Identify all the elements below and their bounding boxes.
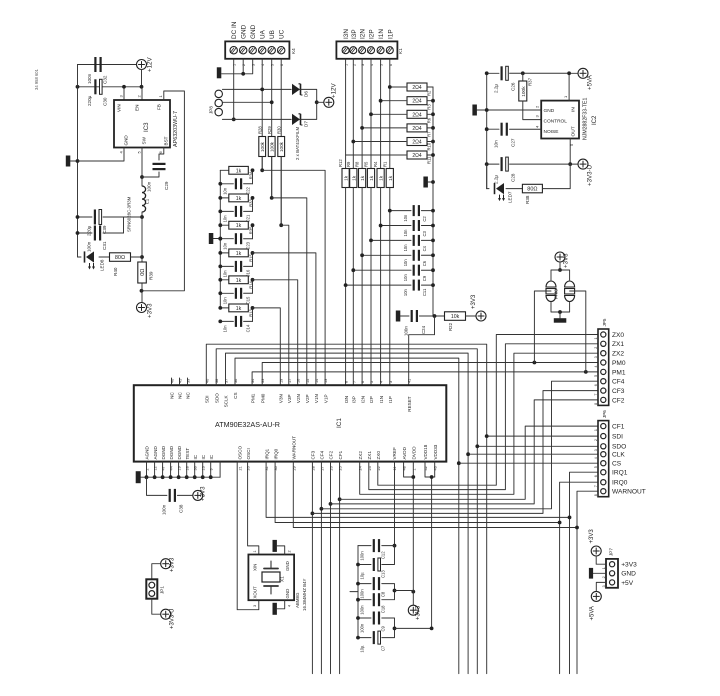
wire EN stub [141, 87, 143, 100]
svg-text:80Ω: 80Ω [527, 187, 537, 193]
svg-text:I2P: I2P [369, 29, 376, 39]
svg-text:X1: X1 [280, 576, 285, 582]
svg-text:AGND: AGND [145, 446, 150, 460]
IC1 ATM90E32AS-AU-R body [134, 385, 447, 461]
resistor R11 2Ω4 [346, 154, 406, 156]
capacitor C11 10n [346, 284, 411, 286]
svg-text:C29: C29 [164, 181, 169, 190]
svg-text:C14: C14 [246, 324, 251, 332]
wire FB feedback loop [142, 91, 185, 291]
capacitor C2 10n [390, 210, 411, 212]
LED8 [78, 256, 82, 258]
svg-text:XIN: XIN [253, 564, 258, 571]
wire IRQ1 net [266, 462, 569, 518]
svg-text:NOISE: NOISE [544, 129, 559, 135]
svg-text:CF1: CF1 [612, 424, 625, 431]
ground GND left rail [77, 65, 79, 258]
svg-text:2Ω4: 2Ω4 [412, 140, 422, 146]
svg-text:UC: UC [279, 29, 286, 39]
svg-text:EN: EN [135, 105, 140, 111]
svg-text:ATM90E32AS-AU-R: ATM90E32AS-AU-R [215, 420, 280, 429]
cap bank bracket C9 C7 [382, 618, 395, 638]
K1 screw pin 6 I1P [386, 47, 393, 54]
svg-text:+3V3-U: +3V3-U [587, 165, 594, 186]
svg-text:1: 1 [602, 567, 606, 569]
svg-text:I3N: I3N [344, 396, 349, 403]
svg-text:I2N: I2N [360, 396, 365, 403]
svg-text:+12V: +12V [147, 57, 154, 72]
svg-text:C27: C27 [511, 138, 516, 147]
svg-text:V3N: V3N [279, 394, 284, 403]
svg-text:ZX1: ZX1 [612, 341, 624, 348]
svg-text:CF3: CF3 [612, 388, 625, 395]
wire CF3 net [311, 462, 313, 674]
svg-text:SDO: SDO [214, 393, 219, 403]
capacitor C32 [94, 57, 96, 72]
svg-text:I1N: I1N [378, 29, 385, 39]
svg-text:C32: C32 [103, 75, 108, 84]
resistor R37 100k [521, 71, 525, 75]
svg-text:VIN: VIN [117, 104, 122, 112]
svg-text:1k: 1k [236, 223, 242, 229]
svg-text:2: 2 [288, 550, 292, 552]
svg-text:100k: 100k [270, 141, 275, 152]
supply +3V3 JP1 [152, 564, 161, 580]
svg-text:WARNOUT: WARNOUT [292, 436, 297, 460]
svg-text:100k: 100k [521, 86, 527, 97]
svg-text:C23: C23 [246, 241, 251, 249]
capacitor C15 10n [220, 292, 233, 294]
ground C24 [396, 311, 401, 322]
svg-text:DGND: DGND [161, 445, 166, 459]
svg-text:C2: C2 [422, 216, 427, 222]
svg-text:JP5: JP5 [602, 318, 607, 326]
ladder left rail [219, 170, 221, 308]
svg-text:10µ: 10µ [360, 645, 365, 653]
svg-text:3: 3 [253, 605, 257, 607]
JP5 pin 6 CF4 [601, 379, 606, 384]
svg-text:R30: R30 [277, 126, 282, 134]
svg-text:16: 16 [297, 379, 301, 383]
svg-text:C7: C7 [381, 645, 386, 651]
supply +3V3 IC1 [193, 490, 203, 500]
ground IC2 GND pin [477, 109, 541, 111]
supply +5VA JP7 [591, 591, 601, 601]
svg-text:CLK: CLK [612, 452, 625, 459]
wire SCLK net [226, 353, 469, 673]
svg-text:1: 1 [594, 338, 598, 340]
crystal top gnd [277, 546, 285, 555]
IC1 ground rail [141, 476, 221, 478]
connector K1 body [336, 41, 397, 58]
wire ladder row 4 to IC1 [251, 251, 255, 255]
resistor R6 2Ω4 [371, 113, 406, 115]
svg-text:21: 21 [239, 466, 243, 470]
svg-text:6: 6 [594, 384, 598, 386]
ground K4 [217, 67, 222, 78]
svg-text:1k: 1k [360, 175, 366, 181]
resistor R35 1k [220, 224, 228, 226]
svg-text:R11: R11 [427, 156, 432, 164]
wire JP8 pad1 to D6 [222, 88, 291, 90]
svg-text:R12: R12 [338, 159, 343, 167]
supply +3V3 JP7 [591, 546, 601, 556]
svg-text:C31: C31 [102, 241, 107, 250]
svg-text:1k: 1k [388, 175, 394, 181]
wire EN rail [78, 86, 143, 88]
svg-text:10n: 10n [223, 215, 228, 223]
svg-text:C4: C4 [422, 245, 427, 251]
svg-text:13: 13 [324, 379, 328, 383]
svg-text:K1: K1 [398, 48, 403, 54]
PM8 element [551, 270, 560, 280]
svg-text:R6: R6 [427, 117, 432, 123]
capacitor C31 [78, 232, 93, 234]
svg-text:100n: 100n [87, 241, 92, 252]
wire ladder row 2 to IC1 [270, 196, 274, 200]
capacitor C29 [159, 148, 164, 161]
svg-text:ZX0: ZX0 [612, 332, 624, 339]
svg-text:SW: SW [142, 136, 147, 144]
svg-text:CS: CS [612, 461, 622, 468]
svg-text:CF4: CF4 [612, 379, 625, 386]
connector JP5 body [598, 329, 609, 405]
capacitor C4 10n [371, 239, 411, 241]
svg-text:+3V3-U: +3V3-U [170, 608, 176, 629]
svg-text:R1: R1 [382, 161, 387, 167]
svg-text:C30: C30 [103, 97, 108, 106]
svg-text:AGND: AGND [153, 446, 158, 460]
connector K4 body [225, 41, 289, 58]
wire RESET to IC1 pin 41 [409, 316, 435, 385]
capacitor C26 2u2 [487, 72, 499, 74]
svg-text:100n: 100n [162, 504, 167, 515]
svg-text:2: 2 [594, 347, 598, 349]
svg-text:220µ: 220µ [87, 95, 92, 106]
svg-text:SCLK: SCLK [224, 394, 229, 407]
svg-text:I3P: I3P [351, 29, 358, 39]
wire VREF drop [393, 462, 396, 546]
svg-text:I3P: I3P [352, 396, 357, 403]
svg-text:R8: R8 [355, 161, 360, 167]
JP5 pin 4 PM0 [601, 360, 606, 365]
IC2 left rail [486, 73, 488, 188]
K4 screw pin 5 UB [268, 47, 275, 54]
svg-text:JP6: JP6 [602, 410, 607, 418]
svg-text:C24: C24 [421, 325, 426, 334]
svg-text:ZX2: ZX2 [358, 451, 363, 460]
resistor R29 100k [268, 137, 275, 157]
svg-text:4: 4 [288, 605, 292, 607]
svg-text:4: 4 [594, 366, 598, 368]
svg-text:NC: NC [186, 391, 191, 398]
svg-text:100n: 100n [360, 589, 365, 599]
svg-text:100n: 100n [87, 73, 92, 84]
svg-text:4: 4 [380, 381, 384, 383]
K4 screw pin 2 GND [240, 47, 247, 54]
diode D7 [292, 114, 300, 125]
svg-text:0Ω: 0Ω [140, 269, 146, 276]
svg-text:IRQ0: IRQ0 [612, 480, 628, 487]
svg-text:10k: 10k [451, 314, 460, 320]
wire PM8 right leg [570, 291, 586, 372]
svg-text:1: 1 [594, 429, 598, 431]
svg-text:ZX1: ZX1 [367, 451, 372, 460]
svg-text:I1P: I1P [387, 29, 394, 39]
capacitor C9 10n [353, 269, 411, 271]
svg-text:RESET: RESET [407, 396, 412, 412]
svg-text:V2P: V2P [305, 394, 310, 403]
svg-text:10n: 10n [403, 244, 408, 252]
cap bank riser join [430, 627, 434, 631]
svg-text:R40: R40 [113, 267, 118, 276]
wire JP1 bottom [152, 599, 161, 615]
svg-text:100n: 100n [360, 605, 365, 615]
wire ZX1 net [369, 344, 598, 490]
svg-text:100k: 100k [279, 141, 284, 152]
svg-text:FB: FB [157, 104, 162, 110]
capacitor C24 [411, 310, 413, 322]
svg-text:DC IN: DC IN [231, 21, 238, 39]
svg-text:VDD33: VDD33 [433, 444, 438, 459]
wire IC2 OUT [569, 139, 571, 165]
JP6 pin 6 IRQ1 [601, 470, 606, 475]
wire PM0 net [262, 363, 598, 386]
wire ladder row 5 to IC1 [251, 278, 255, 282]
svg-text:SRN6028C-3R3M: SRN6028C-3R3M [127, 196, 132, 232]
capacitor C14 10n [220, 320, 233, 322]
wire ladder row 6 to IC1 [251, 306, 255, 310]
svg-text:OUT: OUT [571, 126, 577, 136]
svg-text:C9: C9 [381, 625, 386, 631]
svg-text:10n: 10n [403, 214, 408, 222]
wire WARNOUT net [293, 462, 577, 528]
ground ladder rail [213, 238, 220, 240]
connector JP6 body [598, 421, 609, 497]
svg-text:2Ω4: 2Ω4 [412, 112, 422, 118]
svg-text:10n: 10n [223, 242, 228, 250]
svg-text:I2N: I2N [360, 29, 367, 39]
svg-text:4: 4 [594, 457, 598, 459]
supply +3V3 PM8 [555, 252, 565, 262]
svg-text:LED7: LED7 [508, 191, 513, 203]
svg-text:I1N: I1N [379, 396, 384, 403]
crystal X1 body [248, 555, 294, 601]
wire SDI net [206, 344, 486, 673]
svg-text:14: 14 [315, 379, 319, 383]
svg-text:PM1: PM1 [250, 393, 255, 403]
svg-text:10n: 10n [223, 187, 228, 195]
svg-text:10n: 10n [403, 288, 408, 296]
svg-text:10n: 10n [223, 270, 228, 278]
svg-text:C3: C3 [422, 230, 427, 236]
crystal bottom gnd [277, 600, 285, 609]
svg-text:2Ω4: 2Ω4 [412, 153, 422, 159]
wire IC2 IN [568, 73, 570, 100]
JP5 pin 3 ZX2 [601, 351, 606, 356]
wire diode cathodes to +12V [300, 89, 317, 119]
connector JP1 body [146, 579, 157, 598]
svg-text:8: 8 [345, 381, 349, 383]
svg-text:3: 3 [389, 381, 393, 383]
svg-text:SDO: SDO [612, 444, 626, 451]
svg-text:CF2: CF2 [612, 397, 625, 404]
svg-text:2Ω4: 2Ω4 [412, 99, 422, 105]
K4 screw pin 3 GND [249, 47, 256, 54]
svg-text:16.384MHZ B4Y: 16.384MHZ B4Y [302, 578, 307, 611]
svg-text:R7: R7 [427, 131, 432, 137]
resistor R3 2Ω4 [381, 100, 406, 102]
capacitor C22 10n [220, 183, 233, 185]
JP5 pin 8 CF2 [601, 397, 606, 402]
supply +3V3 cap bank [412, 592, 414, 606]
capacitor C9 100n [358, 617, 371, 619]
K4 screw pin 1 DC IN [230, 47, 237, 54]
wire DC IN line [233, 59, 235, 120]
svg-text:OSCO: OSCO [238, 446, 243, 460]
wire OSCO to XOUT [237, 462, 259, 610]
supply +12V node [324, 97, 334, 107]
svg-text:CF3: CF3 [311, 450, 316, 459]
capacitor C3 10n [381, 225, 411, 227]
svg-text:+3V3: +3V3 [170, 557, 176, 572]
JP7 pin 3 +5V [610, 580, 615, 585]
svg-text:C8: C8 [381, 591, 386, 597]
svg-text:C15: C15 [246, 296, 251, 304]
svg-text:UB: UB [269, 30, 276, 39]
svg-text:C28: C28 [511, 173, 516, 182]
svg-text:GND: GND [124, 135, 129, 146]
svg-text:C13: C13 [381, 570, 386, 578]
JP5 pin 2 ZX1 [601, 341, 606, 346]
svg-text:GND: GND [285, 561, 290, 571]
wire output node [141, 212, 143, 303]
wire left rail stub [350, 591, 358, 593]
svg-text:10n: 10n [403, 274, 408, 282]
svg-text:NC: NC [178, 391, 183, 398]
wire ZX0 net [378, 335, 598, 486]
svg-text:R37: R37 [528, 77, 533, 86]
capacitor C6 10n [362, 254, 411, 256]
svg-text:R9: R9 [346, 161, 351, 167]
svg-text:R28: R28 [258, 126, 263, 134]
svg-text:+3V3: +3V3 [147, 303, 154, 318]
svg-text:34 958 601: 34 958 601 [34, 68, 39, 90]
svg-text:+3V3: +3V3 [589, 529, 595, 544]
svg-text:1k: 1k [379, 175, 385, 181]
JP6 pin 8 WARNOUT [601, 489, 606, 494]
svg-text:PM0: PM0 [260, 393, 265, 403]
svg-text:DVDD: DVDD [412, 446, 417, 460]
svg-text:CONTROL: CONTROL [544, 119, 568, 125]
svg-text:R10: R10 [427, 142, 432, 150]
svg-text:R38: R38 [525, 195, 530, 204]
svg-text:IRQ0: IRQ0 [273, 448, 278, 459]
svg-text:ABM8G: ABM8G [295, 592, 300, 608]
resistor R7 2Ω4 [362, 127, 406, 129]
K1 wires below resistors [345, 188, 347, 386]
svg-text:+3V3: +3V3 [563, 253, 570, 268]
svg-text:AVDD: AVDD [402, 446, 407, 459]
svg-text:8: 8 [594, 403, 598, 405]
JP7 pin 1 +3V3 [610, 562, 615, 567]
K1 screw pin 3 I2N [359, 47, 366, 54]
svg-text:C26: C26 [511, 82, 516, 91]
svg-text:DGND: DGND [177, 445, 182, 459]
svg-text:41: 41 [408, 379, 412, 383]
wire PM8 bottom [551, 302, 570, 312]
svg-text:CF2: CF2 [329, 450, 334, 459]
wire R30 down to row3 [280, 157, 282, 226]
svg-text:ZX2: ZX2 [612, 351, 624, 358]
svg-text:JP1: JP1 [160, 586, 165, 594]
svg-text:VDD18: VDD18 [423, 444, 428, 459]
wire UB line [271, 59, 273, 198]
wire SW node [141, 148, 143, 187]
K1 phase wires [345, 59, 347, 169]
svg-text:+3V3: +3V3 [200, 486, 207, 501]
svg-text:OSCI: OSCI [246, 448, 251, 459]
capacitor C28 2u2 [487, 163, 499, 165]
supply +3V3 buck output [137, 303, 147, 313]
svg-text:1k: 1k [236, 168, 242, 174]
crystal symbol [270, 561, 272, 569]
wire GND pin stub [78, 148, 125, 162]
svg-text:2.2µ: 2.2µ [494, 175, 499, 184]
svg-text:80Ω: 80Ω [115, 255, 125, 261]
svg-text:IC: IC [201, 454, 206, 459]
svg-text:10n: 10n [403, 259, 408, 267]
supply +3V3-U LDO out [570, 163, 578, 165]
resistor R33 1k [220, 197, 228, 199]
svg-text:1k: 1k [351, 175, 357, 181]
svg-text:V2N: V2N [296, 394, 301, 403]
wire K4 GND pins [242, 59, 244, 74]
wire UA line [261, 59, 263, 171]
svg-text:2Ω4: 2Ω4 [412, 85, 422, 91]
capacitor C7 10µ [358, 637, 371, 639]
K1 screw pin 4 I2P [368, 47, 375, 54]
svg-text:WARNOUT: WARNOUT [612, 489, 646, 496]
svg-text:+5VA: +5VA [587, 74, 594, 90]
svg-text:3: 3 [594, 356, 598, 358]
jumper JP8 [215, 90, 222, 97]
svg-text:D7: D7 [304, 121, 309, 127]
wire CF2 net [330, 462, 332, 674]
wire UC line [280, 59, 282, 225]
svg-text:2Ω4: 2Ω4 [412, 126, 422, 132]
svg-text:100n: 100n [360, 551, 365, 561]
svg-text:C9: C9 [422, 275, 427, 281]
JP6 pin 5 CS [601, 461, 606, 466]
resistor R30 100k [278, 137, 285, 157]
svg-text:7: 7 [594, 485, 598, 487]
svg-text:IC2: IC2 [592, 115, 598, 125]
AVDD DVDD bracket [404, 462, 414, 477]
svg-text:R4: R4 [373, 161, 378, 167]
cap bank bracket C8 C18 [382, 584, 395, 600]
svg-text:R39: R39 [149, 271, 154, 280]
wire CF1 net [339, 462, 341, 674]
resistor R13 1k [220, 307, 228, 309]
svg-text:R2: R2 [427, 90, 432, 96]
ground IC1 [136, 471, 141, 483]
svg-text:GND: GND [544, 108, 555, 114]
svg-text:5: 5 [370, 381, 374, 383]
svg-text:+5V: +5V [621, 580, 634, 587]
capacitor C8 100n [358, 583, 371, 585]
svg-text:CS: CS [233, 392, 238, 398]
